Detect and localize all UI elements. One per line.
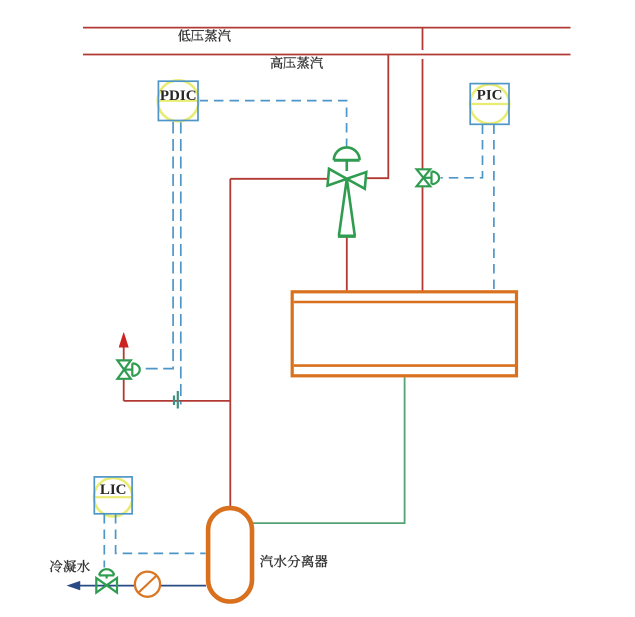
vent valve (w/ diaphragm actuator): [117, 360, 139, 378]
instrument PIC: [470, 84, 509, 125]
pipe: condensate out line (navy): [79, 585, 135, 587]
pipe: low pressure steam header: [83, 27, 571, 29]
label 汽水分离器: [260, 555, 327, 567]
signal: LIC level impulse line to separator (dashed): [116, 514, 206, 553]
pipe: exchanger condensate to separator (green): [253, 378, 405, 524]
svg-text:PDIC: PDIC: [160, 88, 197, 104]
instrument PDIC: [158, 80, 199, 121]
signal: LIC to condensate valve actuator (dashed): [103, 514, 105, 568]
wire: control valve outlet to separator riser: [230, 178, 328, 180]
wire: HP steam drop to control valve: [366, 55, 389, 179]
condensate arrow (navy, left): [67, 581, 80, 590]
control valve PV (globe w/ diaphragm, ejector cone): [328, 147, 367, 236]
wire: main steam drop from LP header to exchanger (gap at HP header crossing): [422, 28, 424, 50]
signal: PIC impulse line to exchanger (dashed): [493, 125, 495, 292]
signal: PDIC left impulse line (dashed, to vent valve actuator): [144, 122, 174, 369]
discharge cone: [339, 179, 355, 236]
svg-text:LIC: LIC: [100, 482, 127, 498]
label 冷凝水 (condensate): [50, 560, 90, 572]
pipe: high pressure steam header: [83, 54, 571, 56]
valve PIC-V (on main steam drop) with diaphragm actuator: [417, 169, 439, 186]
actuator dome: [334, 147, 360, 160]
stem: [345, 160, 348, 171]
signal: PDIC to control valve actuator (dashed): [199, 101, 347, 147]
condensate control valve LV (bowtie + dome actuator): [96, 569, 117, 592]
signal: PDIC right impulse line (dashed, to pipe tap): [180, 122, 182, 405]
label 低压蒸汽 (low pressure steam): [178, 29, 230, 41]
tap symbol ticks on vent pipe: [173, 396, 175, 406]
valve body bowtie (slightly tilted): [328, 169, 367, 189]
separator vessel (steam-water separator): [208, 508, 252, 601]
label 高压蒸汽 (high pressure steam): [271, 57, 323, 69]
heat exchanger shell: [292, 292, 516, 376]
signal: PIC to PIC valve actuator (dashed): [441, 125, 483, 178]
wire: control valve discharge into exchanger: [346, 238, 348, 293]
wire: vent valve riser: [123, 379, 125, 401]
svg-text:PIC: PIC: [477, 88, 503, 104]
wire: separator riser (down to vessel top): [229, 179, 231, 507]
wire: vent branch horizontal: [124, 400, 231, 402]
vent arrow (red, up): [119, 333, 128, 348]
instrument LIC: [94, 477, 132, 517]
pump (circle with diagonal): [135, 572, 160, 597]
